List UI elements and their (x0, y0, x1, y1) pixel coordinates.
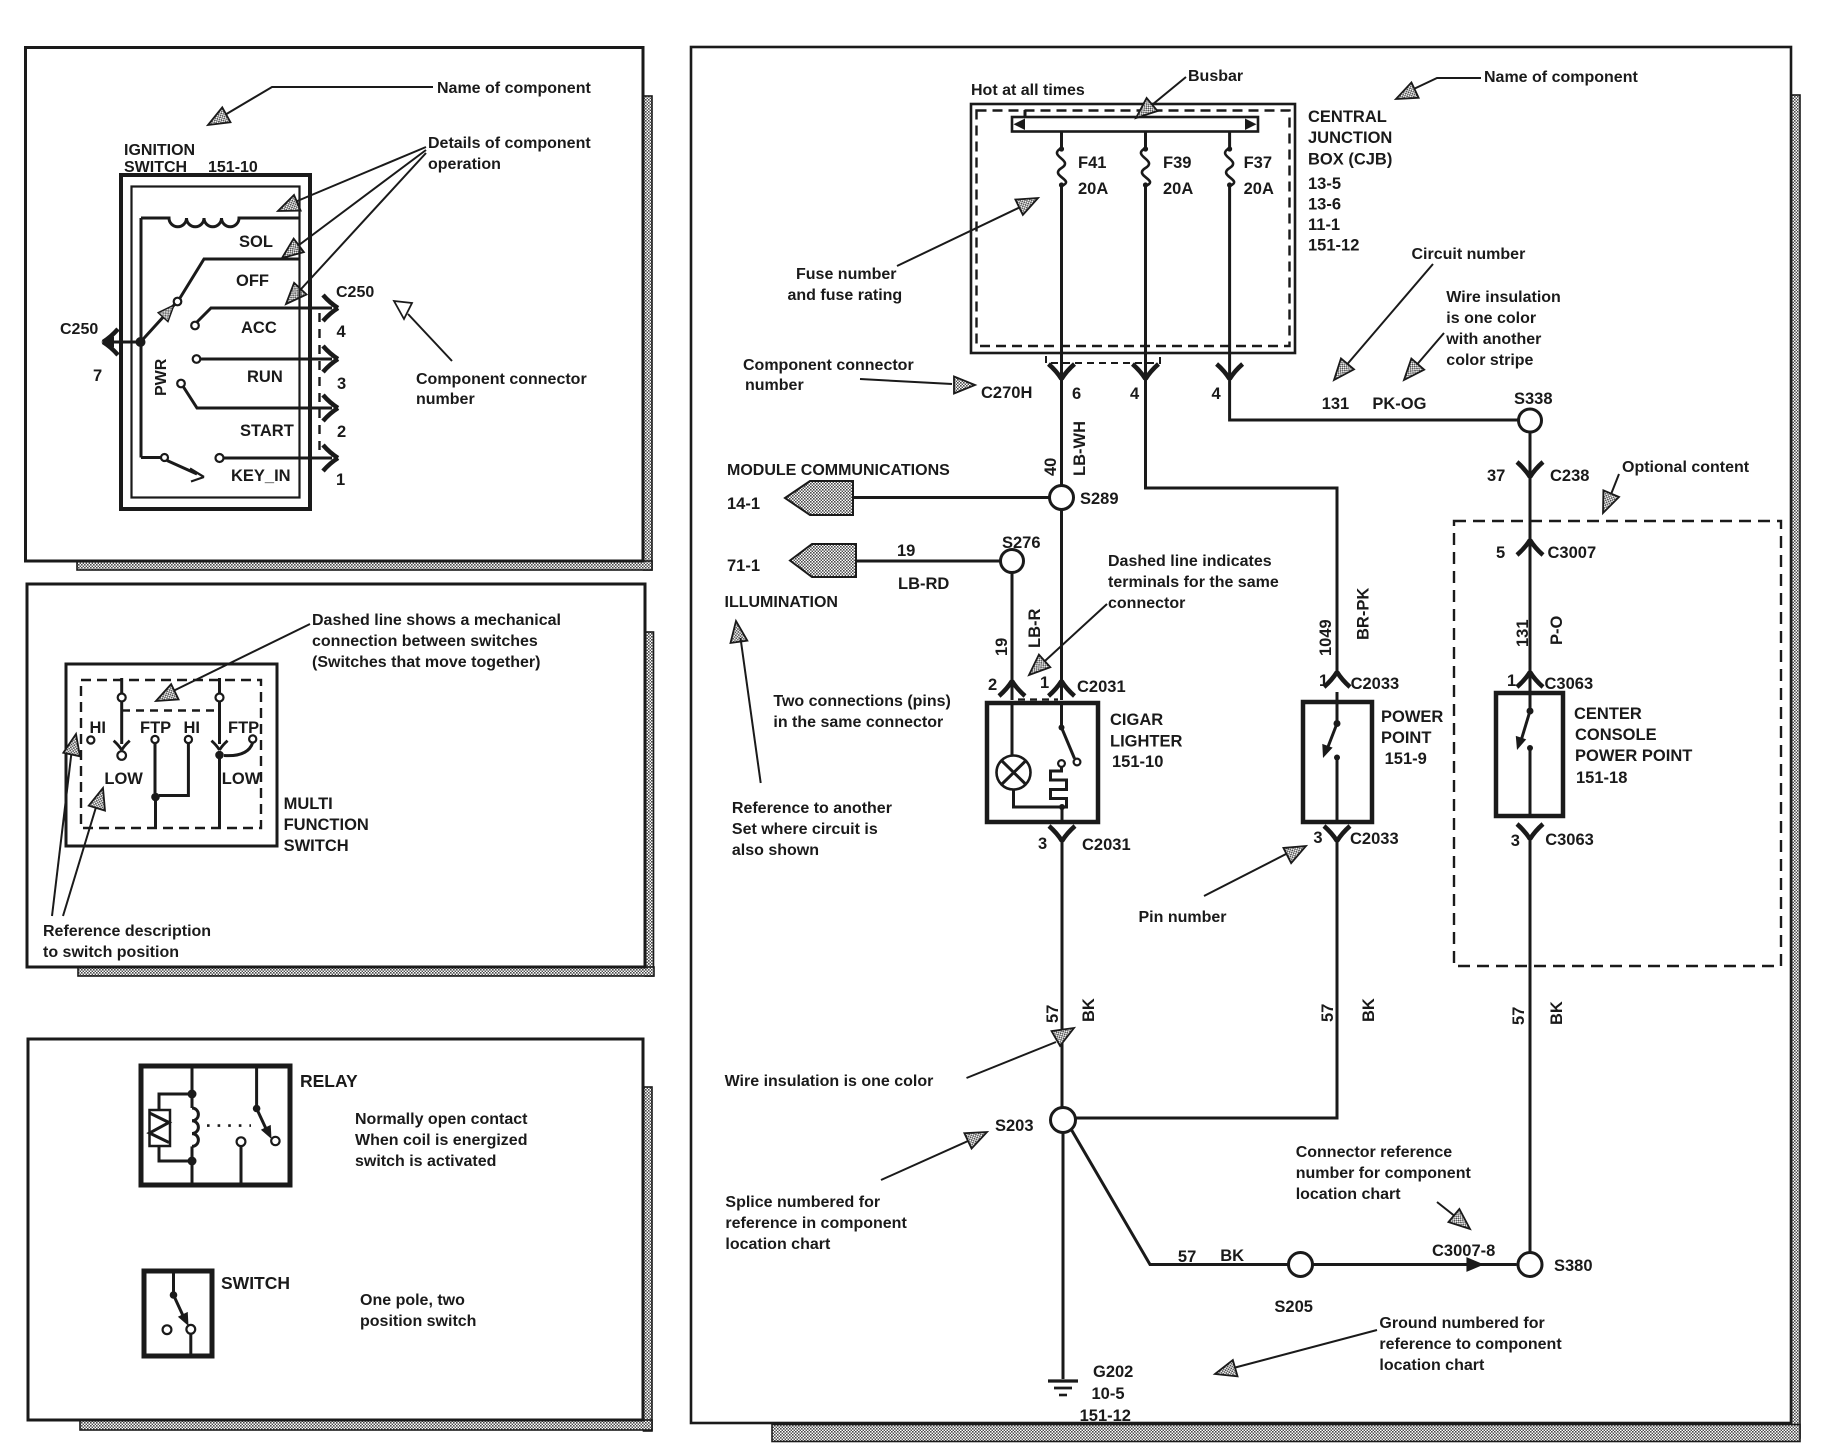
svg-text:6: 6 (1072, 385, 1081, 403)
label: Fuse number and fuse rating (788, 190, 1042, 304)
svg-text:151-10: 151-10 (1112, 753, 1163, 771)
wire S205 to S380 with connector C3007-8 (1313, 1242, 1517, 1272)
svg-text:11-1: 11-1 (1308, 216, 1340, 234)
svg-text:OFF: OFF (236, 272, 269, 290)
solenoid coil SOL (141, 218, 300, 251)
svg-text:Splice numbered for: Splice numbered for (725, 1194, 880, 1211)
svg-text:switch is activated: switch is activated (355, 1153, 496, 1170)
switch pole 1 (114, 678, 130, 760)
svg-text:57: 57 (1510, 1007, 1528, 1025)
rotary switch arm (136, 301, 179, 347)
svg-text:ILLUMINATION: ILLUMINATION (725, 594, 838, 611)
contact FTP 2 (224, 719, 259, 756)
svg-text:151-18: 151-18 (1576, 769, 1627, 787)
fuse F37 20A (1225, 132, 1274, 378)
wire S203 to S205 (1071, 1129, 1289, 1266)
switch position labels LOW (104, 770, 260, 788)
svg-text:C2033: C2033 (1350, 830, 1399, 848)
svg-text:C2031: C2031 (1082, 836, 1131, 854)
svg-text:Name of component: Name of component (1484, 69, 1638, 86)
svg-text:19: 19 (993, 638, 1011, 656)
switch S2 case (144, 1271, 212, 1356)
label: Busbar (1131, 68, 1244, 125)
svg-text:LOW: LOW (104, 770, 143, 788)
svg-text:operation: operation (428, 156, 501, 173)
svg-text:HI: HI (90, 719, 107, 737)
label: Reference to another Set (732, 800, 892, 859)
svg-text:Component connector: Component connector (416, 371, 587, 388)
svg-text:MULTI: MULTI (284, 795, 333, 813)
svg-text:position switch: position switch (360, 1313, 476, 1330)
svg-text:57: 57 (1044, 1005, 1062, 1023)
OFF contact and wire (174, 259, 300, 305)
svg-text:reference to component: reference to component (1379, 1336, 1562, 1353)
wire S289 to cigar lighter (1060, 510, 1063, 701)
connector C250 label and pin numbers (336, 284, 374, 489)
svg-text:LB-R: LB-R (1026, 609, 1044, 648)
svg-text:S338: S338 (1514, 390, 1553, 408)
connector C270H gang dashed line (1046, 356, 1160, 363)
svg-text:and fuse rating: and fuse rating (788, 287, 903, 304)
switch description (360, 1292, 476, 1330)
svg-text:connection between switches: connection between switches (312, 633, 538, 650)
legend box 1 frame (26, 48, 644, 562)
svg-text:40: 40 (1042, 458, 1060, 476)
svg-text:Optional content: Optional content (1622, 459, 1750, 476)
relay resistor branch (150, 1094, 193, 1161)
splice S289 (1050, 486, 1119, 510)
fuse F41 20A (1057, 132, 1108, 378)
svg-text:131: 131 (1322, 395, 1350, 413)
svg-text:connector: connector (1108, 595, 1185, 612)
svg-text:7: 7 (93, 367, 102, 385)
svg-text:4: 4 (337, 323, 347, 341)
svg-text:C2031: C2031 (1077, 678, 1126, 696)
svg-text:C270H: C270H (981, 384, 1032, 402)
busbar (1012, 110, 1258, 132)
contact HI 2 (159, 719, 200, 796)
svg-text:37: 37 (1487, 467, 1505, 485)
wire PWR bus vertical (141, 218, 170, 458)
ignition switch S1 outer case (121, 175, 310, 509)
contact FTP 1 (140, 719, 171, 793)
wire 19 LB-R (993, 573, 1044, 701)
svg-text:C3007-8: C3007-8 (1432, 1242, 1495, 1260)
connector C250 pin arrows (323, 295, 338, 471)
svg-text:C250: C250 (336, 284, 374, 301)
svg-text:START: START (240, 422, 294, 440)
svg-text:RUN: RUN (247, 368, 283, 386)
svg-text:(Switches that move together): (Switches that move together) (312, 654, 540, 671)
label: Component connector number (394, 301, 587, 408)
svg-text:One pole, two: One pole, two (360, 1292, 465, 1309)
connector C2031 bottom pin 3 (1038, 826, 1131, 854)
ground G202 (1048, 1363, 1133, 1425)
svg-text:number: number (745, 377, 804, 394)
legend box 3 shadow (80, 1087, 652, 1431)
center console power point switch (1512, 693, 1534, 816)
svg-text:Name of component: Name of component (437, 80, 591, 97)
component name MULTI FUNCTION SWITCH (284, 795, 369, 855)
connector C2033 bottom pin 3 (1313, 826, 1398, 848)
svg-text:FUNCTION: FUNCTION (284, 816, 369, 834)
svg-text:location chart: location chart (725, 1236, 831, 1253)
svg-text:Wire insulation: Wire insulation (1446, 289, 1561, 306)
label: Pin number (1139, 838, 1310, 926)
svg-text:Dashed line shows a mechanical: Dashed line shows a mechanical (312, 612, 561, 629)
svg-text:Hot at all times: Hot at all times (971, 82, 1085, 99)
multifunction switch dashed case (81, 680, 261, 828)
svg-text:to switch position: to switch position (43, 944, 179, 961)
svg-text:RELAY: RELAY (300, 1071, 358, 1091)
connector C270H pin arrows and numbers (1049, 364, 1243, 403)
wire 57 BK power point to S203 (1076, 841, 1379, 1118)
svg-text:S276: S276 (1002, 534, 1041, 552)
svg-text:C3063: C3063 (1545, 675, 1594, 693)
wire 131 P-O (1496, 521, 1596, 691)
legend box 2 shadow (78, 632, 654, 976)
splice S203 (881, 1108, 1076, 1181)
wire to dashed edge (154, 797, 157, 828)
svg-text:CONSOLE: CONSOLE (1575, 726, 1657, 744)
svg-text:1: 1 (336, 471, 345, 489)
contact HI 1 (87, 719, 106, 744)
label: Connector reference number (1296, 1144, 1476, 1236)
power point case (1303, 702, 1372, 822)
svg-text:C3007: C3007 (1548, 544, 1597, 562)
svg-text:CIGAR: CIGAR (1110, 711, 1163, 729)
svg-text:5: 5 (1496, 544, 1505, 562)
connector C3063 top pin 1 (1507, 672, 1593, 693)
svg-text:2: 2 (337, 423, 346, 441)
component name CENTER CONSOLE POWER POINT 151-18 (1574, 705, 1692, 787)
svg-text:PK-OG: PK-OG (1372, 395, 1426, 413)
svg-text:13-5: 13-5 (1308, 175, 1341, 193)
label: Reference description to switch position (43, 732, 211, 961)
svg-text:F41: F41 (1078, 154, 1106, 172)
relay armature dotted link (207, 1124, 251, 1127)
svg-text:S289: S289 (1080, 490, 1119, 508)
mechanical gang dashed line (122, 709, 220, 711)
ACC contact and wire (191, 308, 332, 337)
svg-text:20A: 20A (1244, 180, 1274, 198)
svg-text:LB-WH: LB-WH (1071, 421, 1089, 476)
svg-text:57: 57 (1319, 1004, 1337, 1022)
svg-text:Set where circuit is: Set where circuit is (732, 821, 878, 838)
label: CENTRAL JUNCTION BOX (CJB) refs (1308, 108, 1392, 255)
svg-text:1049: 1049 (1317, 619, 1335, 656)
svg-text:1: 1 (1040, 674, 1049, 692)
svg-text:BK: BK (1360, 998, 1378, 1022)
svg-text:71-1: 71-1 (727, 557, 760, 575)
svg-text:FTP: FTP (228, 719, 259, 737)
svg-text:number: number (416, 391, 475, 408)
label: Optional content (1595, 459, 1750, 516)
svg-text:POWER: POWER (1381, 708, 1443, 726)
svg-text:S380: S380 (1554, 1257, 1593, 1275)
legend box 2 frame (27, 584, 645, 967)
wire 40 LB-WH (1042, 379, 1089, 486)
node C250 pin 7 wire (60, 321, 141, 385)
component name POWER POINT 151-9 (1381, 708, 1443, 768)
svg-text:LIGHTER: LIGHTER (1110, 733, 1182, 751)
svg-text:KEY_IN: KEY_IN (231, 467, 291, 485)
connector C250 dashed gang line (318, 313, 320, 456)
svg-text:19: 19 (897, 542, 915, 560)
junction node (151, 793, 160, 802)
svg-text:Normally open contact: Normally open contact (355, 1111, 528, 1128)
svg-text:Ground numbered for: Ground numbered for (1379, 1315, 1544, 1332)
label: Details of component operation (275, 135, 592, 310)
optional content dashed box (1454, 521, 1781, 966)
svg-text:3: 3 (337, 375, 346, 393)
svg-text:C238: C238 (1550, 467, 1589, 485)
splice S276 (1001, 534, 1041, 573)
wire F39 to power point (1146, 379, 1338, 673)
svg-text:131: 131 (1514, 619, 1532, 647)
svg-text:10-5: 10-5 (1092, 1385, 1125, 1403)
wire 57 BK center console to S380 (1510, 839, 1566, 1253)
svg-text:3: 3 (1313, 829, 1322, 847)
label: Two connections (pins) in the same connector (773, 693, 950, 731)
central junction box dashed case (977, 111, 1290, 347)
svg-text:1: 1 (1319, 672, 1328, 690)
svg-text:2: 2 (988, 676, 997, 694)
svg-text:IGNITION: IGNITION (124, 142, 195, 159)
START contact and wire (177, 380, 332, 440)
svg-text:with another: with another (1445, 331, 1541, 348)
label: Wire insulation is one color with another color stripe (1398, 289, 1561, 386)
svg-text:LB-RD: LB-RD (898, 575, 949, 593)
label: Dashed line shows a mechanical connection (152, 612, 561, 709)
splice S338 (1514, 390, 1553, 432)
svg-text:BK: BK (1080, 998, 1098, 1022)
svg-text:BK: BK (1220, 1247, 1244, 1265)
svg-text:HI: HI (184, 719, 201, 737)
svg-text:P-O: P-O (1548, 616, 1566, 646)
svg-text:also shown: also shown (732, 842, 819, 859)
label: Name of component (panel) (1392, 69, 1638, 107)
svg-text:location chart: location chart (1379, 1357, 1485, 1374)
relay description (355, 1111, 528, 1170)
svg-text:terminals for the same: terminals for the same (1108, 574, 1279, 591)
switch pole 2 (211, 678, 227, 828)
svg-text:Circuit number: Circuit number (1412, 246, 1526, 263)
svg-text:20A: 20A (1163, 180, 1193, 198)
svg-text:When coil is energized: When coil is energized (355, 1132, 527, 1149)
svg-text:JUNCTION: JUNCTION (1308, 129, 1392, 147)
svg-text:151-12: 151-12 (1308, 237, 1359, 255)
svg-text:POINT: POINT (1381, 729, 1431, 747)
ignition switch S1 inner case (132, 187, 300, 498)
label: MODULE COMMUNICATIONS 14-1 (727, 462, 1050, 515)
component name CIGAR LIGHTER 151-10 (1110, 711, 1182, 771)
svg-text:C3063: C3063 (1545, 831, 1594, 849)
wire 37 to C238 (1487, 432, 1589, 521)
svg-text:Connector reference: Connector reference (1296, 1144, 1453, 1161)
svg-text:LOW: LOW (222, 770, 261, 788)
splice S380 (1518, 1253, 1593, 1277)
main panel frame (691, 47, 1791, 1423)
svg-text:POWER POINT: POWER POINT (1575, 747, 1692, 765)
connector C3063 bottom pin 3 (1511, 824, 1594, 850)
svg-text:is one color: is one color (1446, 310, 1536, 327)
svg-text:Pin number: Pin number (1139, 909, 1227, 926)
switch S2 pole and contacts (163, 1271, 196, 1356)
svg-text:Dashed line indicates: Dashed line indicates (1108, 553, 1272, 570)
wire S203 to ground (1062, 1133, 1065, 1380)
svg-text:S203: S203 (995, 1117, 1034, 1135)
svg-text:CENTER: CENTER (1574, 705, 1642, 723)
label: Component connector number (743, 357, 1032, 402)
main panel shadow (772, 95, 1800, 1442)
svg-text:Two connections (pins): Two connections (pins) (773, 693, 950, 710)
svg-text:3: 3 (1511, 832, 1520, 850)
svg-text:BR-PK: BR-PK (1355, 588, 1373, 640)
svg-text:PWR: PWR (153, 358, 170, 396)
svg-text:151-9: 151-9 (1385, 750, 1427, 768)
label: Dashed line indicates terminals for the same connector (1023, 553, 1279, 681)
svg-text:Component connector: Component connector (743, 357, 914, 374)
svg-text:S205: S205 (1274, 1298, 1313, 1316)
relay K1 case (141, 1066, 290, 1185)
label: Name of component (204, 80, 592, 132)
connector C2033 top pin 1 (1319, 672, 1399, 693)
cigar lighter lamp (997, 703, 1061, 807)
KEY_IN switch and wire (141, 454, 332, 485)
svg-text:SWITCH: SWITCH (221, 1273, 290, 1293)
label: Splice numbered for reference (725, 1194, 907, 1253)
central junction box solid case (971, 104, 1295, 353)
fuse F39 20A (1141, 132, 1193, 378)
svg-text:C250: C250 (60, 321, 98, 338)
center console power point case (1496, 693, 1563, 816)
svg-text:F37: F37 (1244, 154, 1272, 172)
svg-text:color stripe: color stripe (1446, 352, 1533, 369)
svg-text:in the same connector: in the same connector (773, 714, 943, 731)
svg-text:BOX (CJB): BOX (CJB) (1308, 151, 1392, 169)
svg-text:MODULE COMMUNICATIONS: MODULE COMMUNICATIONS (727, 462, 950, 479)
label: Ground numbered for reference (1213, 1315, 1563, 1382)
multifunction switch case (66, 664, 277, 846)
label: Circuit number (1327, 246, 1525, 385)
svg-text:reference in component: reference in component (725, 1215, 907, 1232)
svg-text:Details of component: Details of component (428, 135, 591, 152)
legend box 1 shadow (77, 96, 652, 570)
svg-text:57: 57 (1178, 1248, 1196, 1266)
reference pointer to ILLUMINATION (728, 620, 761, 783)
power point switch (1318, 692, 1341, 822)
svg-text:13-6: 13-6 (1308, 196, 1341, 214)
svg-text:3: 3 (1038, 835, 1047, 853)
svg-text:SOL: SOL (239, 233, 273, 251)
svg-text:SWITCH: SWITCH (284, 837, 349, 855)
svg-text:F39: F39 (1163, 154, 1191, 172)
label: ILLUMINATION 71-1 (725, 542, 1001, 611)
svg-text:BK: BK (1548, 1001, 1566, 1025)
wire 57 BK cigar lighter to S203 (967, 841, 1099, 1108)
wire 1049 BR-PK (1317, 588, 1373, 656)
wire 131 PK-OG to S338 (1230, 379, 1519, 420)
svg-text:FTP: FTP (140, 719, 171, 737)
svg-text:CENTRAL: CENTRAL (1308, 108, 1387, 126)
splice S205 (1274, 1253, 1313, 1317)
RUN contact and wire (193, 355, 332, 386)
cigar lighter switch and heater (1051, 703, 1081, 822)
svg-text:Fuse number: Fuse number (796, 266, 896, 283)
svg-text:14-1: 14-1 (727, 495, 760, 513)
connector C2031 top pins (988, 674, 1126, 700)
relay switch branch (237, 1066, 280, 1185)
svg-text:location chart: location chart (1296, 1186, 1402, 1203)
svg-text:C2033: C2033 (1351, 675, 1400, 693)
cigar lighter case (987, 703, 1098, 822)
svg-text:4: 4 (1130, 385, 1140, 403)
ignition switch title (124, 142, 258, 176)
svg-text:4: 4 (1212, 385, 1222, 403)
legend box 3 frame (28, 1039, 643, 1420)
svg-text:20A: 20A (1078, 180, 1108, 198)
svg-text:151-12: 151-12 (1080, 1407, 1131, 1425)
svg-text:1: 1 (1507, 672, 1516, 690)
svg-text:Reference description: Reference description (43, 923, 211, 940)
svg-text:Wire insulation is one color: Wire insulation is one color (725, 1073, 934, 1090)
svg-text:Reference to another: Reference to another (732, 800, 892, 817)
svg-text:G202: G202 (1093, 1363, 1133, 1381)
relay coil branch (188, 1066, 199, 1185)
svg-text:number for component: number for component (1296, 1165, 1472, 1182)
svg-text:Busbar: Busbar (1188, 68, 1243, 85)
svg-text:ACC: ACC (241, 319, 277, 337)
